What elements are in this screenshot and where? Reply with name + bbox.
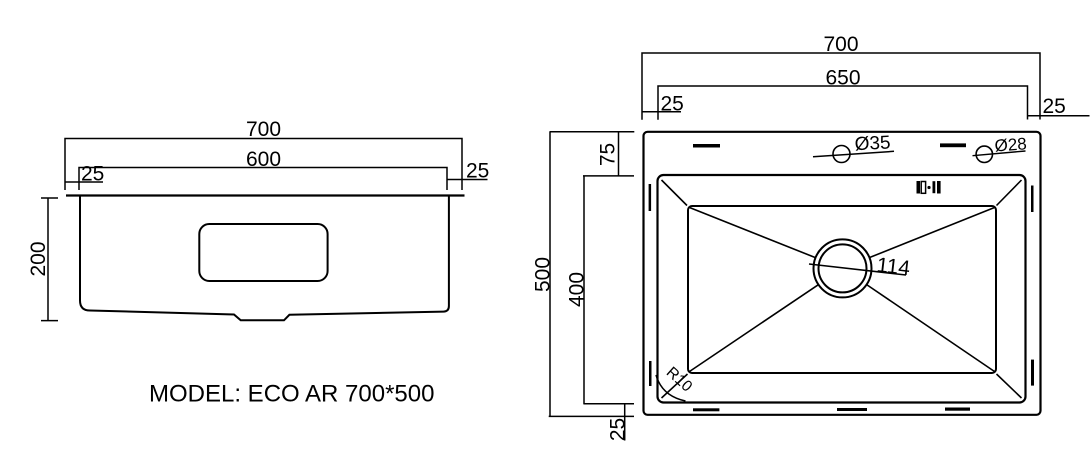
clip tick left-top (649, 184, 652, 211)
svg-text:500: 500 (532, 257, 555, 292)
dim tick 25 left (left view) (65, 181, 103, 183)
svg-text:25: 25 (606, 418, 629, 441)
svg-text:R10: R10 (663, 364, 696, 396)
bowl outer rounded rect (658, 175, 1026, 403)
clip tick right-bottom (1031, 360, 1034, 386)
faucet hole circle d28 (976, 146, 992, 162)
dim line 700 (left view) (65, 139, 462, 191)
corner connector bottom-right (997, 374, 1022, 398)
corner connector top-right (997, 180, 1022, 206)
deck dash mark left (693, 144, 720, 148)
deck line (left view) (66, 194, 465, 196)
overflow cutout rounded rect (left view) (199, 224, 327, 281)
svg-text:Ø28: Ø28 (994, 134, 1027, 155)
slope diagonal bottom-right (867, 285, 995, 372)
slope diagonal bottom-left (690, 285, 819, 372)
bottom dash mark middle (837, 408, 867, 411)
drain leader line 114 (809, 264, 906, 275)
dim line 700 (right view) (642, 53, 1040, 120)
slope diagonal top-left (690, 208, 816, 258)
dim line 500 vertical with top tick (549, 132, 635, 417)
dim line 25 bottom vertical (624, 404, 626, 441)
svg-text:200: 200 (27, 241, 50, 276)
dim tick 25 left (right view) (642, 111, 681, 113)
bottom dash mark left (693, 408, 719, 411)
svg-text:700: 700 (246, 118, 281, 141)
bottom dash mark right (945, 408, 970, 411)
dim line 400 vertical (583, 176, 634, 404)
radius callout arc R10 (656, 375, 686, 401)
sink body outline (left view) (80, 196, 449, 321)
bowl bottom inner rect (688, 206, 996, 373)
svg-text:MODEL: ECO AR 700*500: MODEL: ECO AR 700*500 (149, 381, 434, 408)
svg-text:25: 25 (81, 163, 104, 186)
slope diagonal top-right (870, 208, 995, 258)
drain outer circle (814, 239, 872, 297)
outer deck rect (right view) (644, 132, 1041, 415)
faucet hole circle d35 (833, 146, 850, 163)
dim tick 25 right (right view) (1028, 115, 1090, 117)
svg-text:400: 400 (565, 272, 588, 307)
deck dash mark right (940, 143, 966, 147)
svg-text:75: 75 (597, 143, 620, 166)
corner connector bottom-left (662, 374, 688, 398)
svg-text:600: 600 (246, 148, 281, 171)
dim line 650 (right view) (658, 86, 1028, 120)
clip tick right-top (1031, 186, 1034, 213)
drain inner circle (819, 244, 867, 292)
dim bracket 200 (left view) (41, 198, 58, 321)
clip tick left-bottom (649, 361, 652, 386)
svg-text:Ø35: Ø35 (854, 132, 891, 155)
leader line d35 (813, 151, 894, 157)
svg-text:700: 700 (823, 33, 858, 56)
dim tick 25 right (left view) (447, 179, 488, 181)
overflow mark group (917, 181, 941, 194)
leader line d28 (973, 151, 1026, 156)
svg-text:650: 650 (825, 67, 860, 90)
dim line 75 vertical (583, 132, 634, 176)
dim line 600 (left view) (79, 168, 447, 191)
svg-text:25: 25 (466, 160, 489, 183)
svg-text:114: 114 (875, 254, 911, 281)
svg-text:25: 25 (1043, 95, 1066, 118)
corner connector top-left (662, 180, 688, 206)
svg-text:25: 25 (661, 93, 684, 116)
